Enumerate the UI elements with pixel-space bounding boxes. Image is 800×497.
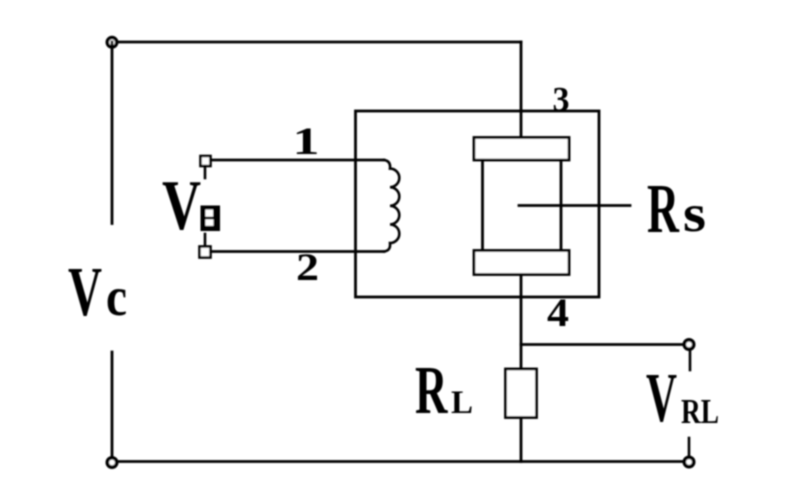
sensor RS bottom cap (474, 251, 569, 275)
wire VRL- stub (688, 438, 691, 457)
terminal VRL+ (684, 340, 693, 349)
wire VH- stub (204, 234, 207, 246)
svg-text:s: s (683, 185, 706, 243)
svg-text:L: L (451, 385, 473, 421)
wire pin3 drop (520, 42, 523, 138)
svg-text:RL: RL (681, 392, 719, 431)
sensor enclosure box (356, 111, 600, 297)
heater coil (384, 160, 399, 252)
wire VH+ stub (204, 166, 207, 178)
terminal pin1 (VH+) (201, 156, 211, 166)
wire top rail (119, 41, 521, 44)
svg-text:4: 4 (547, 290, 569, 335)
sensor RS body left wall (481, 160, 484, 251)
svg-text:V: V (646, 360, 677, 437)
terminal VRL- (684, 457, 693, 466)
sensor RS body right wall (560, 160, 563, 251)
svg-text:V: V (162, 167, 201, 245)
terminal VC+ (top-left) (107, 38, 116, 47)
terminal pin2 (VH-) (200, 247, 211, 258)
wire pin1 (211, 159, 385, 162)
RS pointer line (519, 204, 630, 207)
svg-text:2: 2 (296, 246, 319, 289)
svg-text:R: R (647, 171, 680, 248)
svg-text:V: V (68, 254, 102, 331)
label VH subscript H (blocky) (201, 206, 221, 232)
svg-text:3: 3 (553, 80, 570, 119)
wire VC left upper (111, 42, 114, 224)
wire pin4 drop (520, 275, 523, 370)
wire pin2 (211, 250, 385, 253)
wire RL bottom (520, 418, 523, 462)
wire branch to VRL+ (521, 343, 684, 346)
wire bottom rail (119, 460, 683, 463)
terminal VC- (bottom-left) (107, 458, 116, 467)
wire VRL+ stub (689, 350, 692, 370)
resistor RL (506, 369, 537, 418)
svg-text:1: 1 (293, 120, 320, 163)
wire VC left lower (111, 352, 114, 457)
svg-text:c: c (106, 266, 127, 327)
sensor RS top cap (474, 138, 569, 161)
svg-text:R: R (415, 352, 448, 428)
